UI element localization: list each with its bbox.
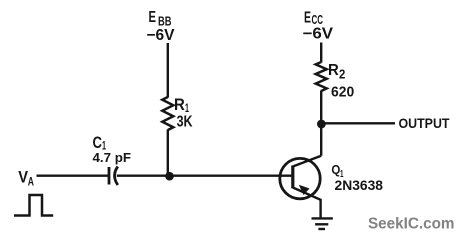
- supply EBB label: [147, 9, 176, 44]
- transistor Q1 circle: [280, 158, 320, 198]
- supply ECC label: [303, 9, 334, 42]
- wire ECC to R2 top: [320, 43, 322, 63]
- label VA: [18, 169, 34, 189]
- label R2 value 620: [328, 62, 354, 100]
- svg-text:OUTPUT: OUTPUT: [399, 115, 450, 131]
- svg-text:SeekIC.com: SeekIC.com: [368, 215, 455, 232]
- svg-text:2N3638: 2N3638: [335, 178, 384, 193]
- svg-text:−6V: −6V: [303, 26, 334, 43]
- transistor Q1 emitter lead: [293, 188, 321, 218]
- transistor Q1 emitter arrow (PNP): [299, 185, 310, 195]
- resistor R1: [162, 97, 173, 130]
- capacitor C1: [109, 167, 118, 186]
- transistor Q1 base bar: [291, 166, 294, 189]
- node base junction dot: [165, 172, 174, 181]
- svg-text:−6V: −6V: [147, 27, 176, 44]
- svg-text:E: E: [149, 9, 157, 26]
- wire EBB to R1 top: [167, 43, 169, 98]
- wire R1 bottom to base node: [167, 130, 169, 177]
- input pulse symbol: [14, 195, 53, 216]
- wire C1 to base of Q1: [117, 175, 293, 177]
- node output junction dot: [317, 120, 326, 129]
- svg-text:4.7 pF: 4.7 pF: [93, 150, 132, 165]
- label Q1 2N3638: [331, 162, 383, 193]
- ground: [312, 218, 333, 229]
- svg-text:E: E: [304, 9, 311, 26]
- wire R2 bottom through output node to collector: [320, 91, 322, 156]
- label R1 value 3K: [174, 96, 193, 131]
- svg-text:R: R: [174, 96, 185, 114]
- svg-text:A: A: [28, 174, 34, 188]
- svg-text:3K: 3K: [177, 114, 193, 131]
- svg-text:620: 620: [331, 84, 354, 100]
- svg-text:R: R: [328, 62, 339, 79]
- wire output node to OUTPUT: [321, 122, 395, 124]
- wire VA to C1: [37, 175, 110, 177]
- svg-text:V: V: [18, 169, 28, 187]
- resistor R2: [316, 62, 327, 91]
- label C1 value 4.7pF: [93, 134, 132, 165]
- transistor Q1 collector lead: [293, 156, 321, 167]
- svg-text:2: 2: [339, 68, 345, 82]
